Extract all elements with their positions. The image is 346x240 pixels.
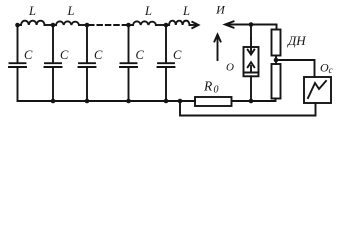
- svg-text:L: L: [28, 4, 36, 18]
- wire: [156, 24, 169, 26]
- node dot: [274, 58, 279, 63]
- node dot: [85, 23, 90, 28]
- svg-text:C: C: [136, 48, 145, 62]
- capacitor C4: [120, 25, 145, 101]
- wire (dashed continuation of ladder): [89, 24, 126, 26]
- inductor L4: [169, 4, 190, 25]
- wire return (bus to oscilloscope bottom): [180, 101, 316, 116]
- capacitor C2: [45, 25, 70, 101]
- node dot: [249, 99, 254, 104]
- svg-text:с: с: [329, 66, 334, 76]
- wire (down to sample box): [250, 25, 252, 39]
- sample O (box with counter-propagating wave arrows and transducer plate): [226, 39, 259, 77]
- node dot: [164, 99, 169, 104]
- svg-text:И: И: [215, 3, 226, 17]
- wire (tap to oscilloscope): [276, 60, 315, 77]
- svg-text:ДН: ДН: [286, 33, 306, 48]
- node dot: [51, 99, 56, 104]
- wire: [126, 24, 133, 26]
- svg-text:C: C: [173, 48, 182, 62]
- wire bottom bus (left): [18, 100, 196, 102]
- oscilloscope Os: [304, 60, 334, 103]
- wire: [79, 24, 89, 26]
- inductor L3: [133, 4, 156, 25]
- svg-text:R: R: [203, 79, 213, 94]
- arrow up (into gap И): [214, 35, 220, 61]
- wire (corner down to divider): [276, 25, 278, 30]
- wire: [45, 24, 57, 26]
- svg-text:О: О: [226, 62, 234, 74]
- resistor R0: [195, 79, 232, 107]
- capacitor C1: [9, 25, 33, 101]
- resistor DN-bottom (voltage divider lower arm): [272, 64, 281, 99]
- svg-text:C: C: [60, 48, 69, 62]
- inductor L1: [18, 4, 45, 25]
- node input (top-left junction dot): [15, 23, 20, 28]
- node dot: [249, 22, 254, 27]
- svg-text:L: L: [182, 4, 190, 18]
- node dot: [51, 23, 56, 28]
- node dot: [126, 23, 131, 28]
- resistor DN-top (voltage divider upper arm): [272, 30, 307, 56]
- inductor L2: [56, 4, 79, 25]
- wire (divider middle): [275, 56, 277, 65]
- arrow left (from right branch into gap И): [225, 21, 277, 27]
- node dot: [85, 99, 90, 104]
- svg-text:C: C: [24, 48, 33, 62]
- svg-text:L: L: [144, 4, 152, 18]
- node dot: [126, 99, 131, 104]
- svg-text:L: L: [67, 4, 75, 18]
- node dot: [164, 23, 169, 28]
- capacitor C5: [158, 25, 183, 101]
- wire bottom bus (right): [232, 99, 276, 102]
- svg-text:0: 0: [214, 85, 219, 96]
- svg-text:C: C: [94, 48, 103, 62]
- node dot: [178, 99, 183, 104]
- wire (sample box to bus): [250, 76, 252, 101]
- arrow (ladder output toward gap): [190, 22, 199, 28]
- capacitor C3: [79, 25, 104, 101]
